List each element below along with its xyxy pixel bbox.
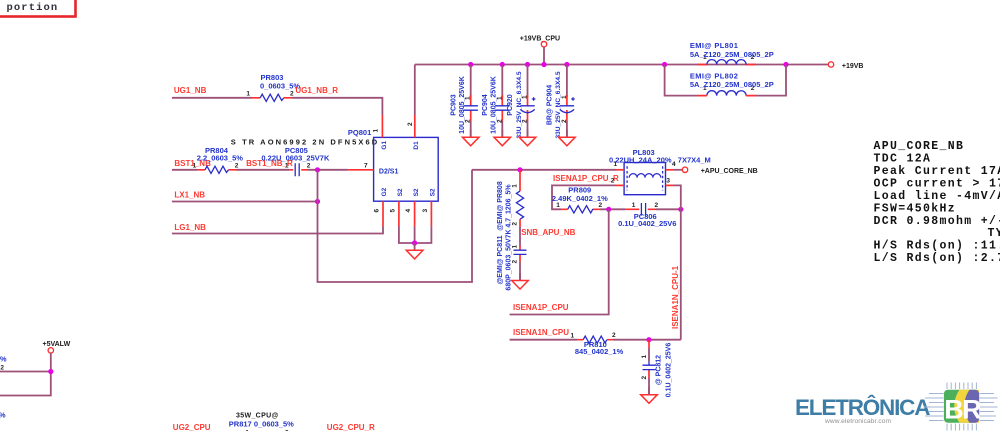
- svg-text:1: 1: [512, 184, 519, 188]
- capacitor PC811: [497, 227, 526, 291]
- svg-text:1: 1: [193, 162, 197, 169]
- svg-text:S TR AON6992 2N DFN5X6D: S TR AON6992 2N DFN5X6D: [231, 138, 379, 147]
- resistor PR810: [570, 332, 623, 356]
- junction rail EMI right: [783, 62, 788, 67]
- svg-text:ELETRÔNICA: ELETRÔNICA: [795, 395, 930, 420]
- pin 6 G2: [382, 201, 384, 226]
- svg-text:ISENA1N_CPU-1: ISENA1N_CPU-1: [671, 265, 680, 329]
- wire D1 to rail: [414, 65, 416, 116]
- power +APU_CORE_NB: [682, 167, 757, 175]
- svg-text:33U_25V_NC_6.3X4.5: 33U_25V_NC_6.3X4.5: [516, 71, 523, 138]
- ground PC903: [462, 130, 479, 146]
- wire BST1_NB_R: [237, 169, 290, 171]
- inductor PL801: [690, 41, 774, 65]
- svg-text:2: 2: [612, 332, 616, 339]
- junction LX1: [315, 199, 320, 204]
- svg-text:845_0402_1%: 845_0402_1%: [575, 347, 624, 356]
- svg-text:G2: G2: [381, 187, 388, 196]
- wire source pins to gnd node: [399, 226, 432, 243]
- power +19VB_CPU: [520, 36, 560, 65]
- svg-text:EMI@ PL802: EMI@ PL802: [690, 71, 738, 80]
- junction rail EMI left: [662, 62, 667, 67]
- wire ISENA1P vertical: [510, 209, 609, 314]
- svg-text:L/S Rds(on) :2.75: L/S Rds(on) :2.75: [874, 252, 1000, 265]
- svg-text:+19VB_CPU: +19VB_CPU: [520, 36, 560, 43]
- svg-text:PC903: PC903: [450, 94, 457, 116]
- svg-text:D1: D1: [413, 141, 420, 150]
- svg-text:SNB_APU_NB: SNB_APU_NB: [521, 228, 575, 237]
- wire ISENA1N_CPU-1 vertical: [674, 185, 681, 339]
- ground PC811: [512, 273, 529, 289]
- svg-text:ISENA1P_CPU: ISENA1P_CPU: [513, 303, 569, 312]
- svg-text:2.2_0603_5%: 2.2_0603_5%: [197, 153, 244, 162]
- svg-text:D2/S1: D2/S1: [379, 168, 399, 175]
- svg-text:APU_CORE_NB: APU_CORE_NB: [874, 140, 965, 153]
- svg-text:+19VB: +19VB: [842, 63, 864, 70]
- wire pin2 to PR809: [552, 185, 616, 209]
- svg-text:2.49K_0402_1%: 2.49K_0402_1%: [552, 194, 608, 203]
- svg-text:+5VALW: +5VALW: [43, 341, 71, 348]
- portion label box: [0, 0, 76, 17]
- svg-text:7: 7: [364, 162, 368, 169]
- pin 5 S2: [398, 201, 400, 226]
- svg-text:H/S Rds(on) :11.5: H/S Rds(on) :11.5: [874, 240, 1000, 253]
- svg-text:10U_0805_25V6K: 10U_0805_25V6K: [491, 76, 498, 134]
- inductor PL803: [609, 148, 711, 195]
- svg-text:DCR 0.98mohm +/-7: DCR 0.98mohm +/-7: [874, 215, 1000, 228]
- svg-text:3: 3: [666, 178, 670, 185]
- watermark logo ELETRONICA BR: [795, 395, 930, 425]
- svg-text:0.1U_0402_25V6: 0.1U_0402_25V6: [618, 219, 676, 228]
- svg-text:ISENA1N_CPU: ISENA1N_CPU: [513, 328, 569, 337]
- wire 5VALW horiz: [0, 372, 51, 396]
- capacitor PC806: [618, 202, 676, 228]
- power +5VALW: [43, 341, 71, 372]
- svg-text:@EMI@ PC811: @EMI@ PC811: [497, 235, 504, 284]
- svg-text:LX1_NB: LX1_NB: [174, 190, 205, 199]
- svg-text:FSW=450kHz: FSW=450kHz: [874, 202, 957, 215]
- svg-text:1: 1: [641, 355, 648, 359]
- junction PR809 out: [606, 207, 611, 212]
- svg-text:6: 6: [374, 209, 381, 213]
- svg-text:G1: G1: [381, 141, 388, 150]
- svg-text:2: 2: [611, 178, 615, 185]
- pin2 PL803: [616, 184, 624, 186]
- svg-text:UG2_CPU: UG2_CPU: [173, 423, 211, 431]
- svg-text:LG1_NB: LG1_NB: [174, 223, 206, 232]
- svg-text:1: 1: [570, 333, 574, 340]
- svg-text:@ PC812: @ PC812: [656, 355, 663, 385]
- resistor PR808: [497, 170, 523, 231]
- ground PC904: [494, 130, 511, 146]
- svg-text:2: 2: [641, 376, 648, 380]
- capacitor PC903: [450, 62, 478, 137]
- resistor PR817 labels: [229, 413, 294, 431]
- wire UG1_NB_R to gate: [292, 98, 382, 115]
- svg-text:1: 1: [614, 161, 618, 168]
- wire +19VB rail: [415, 64, 828, 66]
- svg-text:PQ801: PQ801: [348, 128, 371, 137]
- svg-text:UG1_NB: UG1_NB: [174, 86, 207, 95]
- svg-text:35W_CPU@: 35W_CPU@: [236, 413, 279, 420]
- svg-text:4.7_1206_5%: 4.7_1206_5%: [505, 184, 512, 228]
- transistor PQ801: [348, 128, 438, 201]
- svg-text:2: 2: [655, 202, 659, 209]
- svg-text:S2: S2: [429, 188, 436, 196]
- svg-text:2: 2: [407, 122, 414, 126]
- svg-text:@EMI@ PR808: @EMI@ PR808: [497, 181, 504, 231]
- svg-text:1: 1: [373, 129, 380, 133]
- svg-text:%: %: [0, 411, 6, 420]
- svg-text:Load line -4mV/A: Load line -4mV/A: [874, 190, 1000, 203]
- resistor PR804: [193, 146, 244, 174]
- wire PR809 to PC806: [600, 208, 625, 210]
- pin 3 S2: [430, 201, 432, 226]
- pin1 PL803: [616, 169, 624, 171]
- inductor PL802: [690, 71, 774, 95]
- svg-text:1: 1: [512, 245, 519, 249]
- wire LX1_NB: [172, 201, 318, 203]
- pin 7 D2/S1: [348, 169, 373, 171]
- svg-text:UG2_CPU_R: UG2_CPU_R: [327, 423, 375, 431]
- svg-text:4: 4: [405, 209, 412, 213]
- ground below PQ801: [406, 243, 423, 259]
- svg-text:www.eletronicabr.com: www.eletronicabr.com: [824, 418, 892, 425]
- resistor PR803: [246, 73, 300, 101]
- junction BST node: [315, 167, 320, 172]
- svg-text:2: 2: [235, 162, 239, 169]
- svg-text:0_0603_5%: 0_0603_5%: [260, 81, 300, 90]
- wire LG1_NB: [172, 226, 383, 233]
- junction source node: [412, 240, 417, 245]
- resistor PR809: [552, 186, 608, 213]
- svg-text:3: 3: [422, 209, 429, 213]
- svg-text:5%: 5%: [0, 354, 7, 363]
- svg-text:1: 1: [285, 162, 289, 169]
- svg-text:TYP: TYP: [988, 227, 1000, 240]
- svg-text:UG1_NB_R: UG1_NB_R: [295, 86, 338, 95]
- svg-text:EMI@ PL801: EMI@ PL801: [690, 41, 738, 50]
- svg-text:1: 1: [246, 91, 250, 98]
- wire UG1_NB: [172, 97, 252, 99]
- svg-text:2: 2: [512, 260, 519, 264]
- svg-text:5A_Z120_25M_0805_2P: 5A_Z120_25M_0805_2P: [690, 50, 774, 59]
- svg-text:4: 4: [672, 161, 676, 168]
- pin3 PL803: [666, 184, 674, 186]
- svg-text:BR@ PC904: BR@ PC904: [547, 85, 554, 125]
- svg-text:OCP current > 17A: OCP current > 17A: [874, 177, 1000, 190]
- capacitor PC812: [641, 340, 673, 398]
- svg-text:5: 5: [389, 209, 396, 213]
- svg-text:S2: S2: [397, 188, 404, 196]
- svg-text:0.22U_0603_25V7K: 0.22U_0603_25V7K: [261, 153, 330, 162]
- ground PC812: [641, 387, 658, 403]
- svg-text:2: 2: [0, 364, 4, 371]
- ground PC921: [559, 130, 576, 146]
- svg-text:2: 2: [290, 91, 294, 98]
- junction rail power stub: [541, 62, 546, 67]
- svg-text:+APU_CORE_NB: +APU_CORE_NB: [701, 168, 758, 175]
- wire SNB node: [472, 169, 616, 171]
- svg-text:TDC 12A: TDC 12A: [874, 153, 932, 166]
- pin 2 D1: [414, 115, 416, 137]
- svg-text:680P_0603_50V7K: 680P_0603_50V7K: [505, 229, 512, 290]
- capacitor PC805: [261, 146, 330, 176]
- svg-text:Peak Current 17A: Peak Current 17A: [874, 165, 1000, 178]
- wire BST1_NB: [172, 169, 197, 171]
- ground PC920: [519, 130, 536, 146]
- pin4 PL803: [666, 169, 674, 171]
- wire PC806 to ISENA1N vert: [656, 208, 681, 210]
- svg-text:PC920: PC920: [507, 94, 514, 116]
- svg-text:5A_Z120_25M_0805_2P: 5A_Z120_25M_0805_2P: [690, 80, 774, 89]
- svg-text:BR: BR: [944, 395, 981, 425]
- svg-text:2: 2: [307, 162, 311, 169]
- svg-text:S2: S2: [413, 188, 420, 196]
- svg-text:PR817 0_0603_5%: PR817 0_0603_5%: [229, 420, 294, 429]
- svg-text:1: 1: [632, 202, 636, 209]
- svg-text:portion: portion: [7, 2, 59, 14]
- capacitor PC904: [482, 62, 510, 137]
- pin 1 G1: [381, 115, 383, 137]
- junction 5VALW: [48, 369, 53, 374]
- wire PR810 to vert: [613, 339, 681, 341]
- svg-text:10U_0805_25V6K: 10U_0805_25V6K: [459, 76, 466, 134]
- wire to APU_CORE_NB: [674, 169, 683, 171]
- junction PC812 tap: [646, 337, 651, 342]
- svg-text:33U_25V_NC_6.3X4.5: 33U_25V_NC_6.3X4.5: [555, 71, 562, 138]
- spec text block: [874, 140, 1000, 265]
- capacitor PC920 polarized: [507, 62, 535, 139]
- pin 4 S2: [414, 201, 416, 226]
- svg-text:ISENA1P_CPU_R: ISENA1P_CPU_R: [553, 174, 619, 183]
- junction SNB: [517, 167, 522, 172]
- svg-text:PC904: PC904: [482, 94, 489, 116]
- wire EMI parallel loop: [665, 65, 786, 96]
- power +19VB terminal: [828, 62, 863, 70]
- wire PC805 to pin7: [308, 169, 348, 171]
- svg-text:2: 2: [512, 222, 519, 226]
- junction PC806 right: [678, 207, 683, 212]
- svg-text:0.1U_0402_25V6: 0.1U_0402_25V6: [666, 343, 673, 398]
- wire ISENA1N_CPU: [510, 339, 577, 341]
- logo chip graphic: [924, 383, 998, 431]
- wire snubber loop: [318, 170, 473, 282]
- capacitor PC921 polarized: [547, 62, 575, 139]
